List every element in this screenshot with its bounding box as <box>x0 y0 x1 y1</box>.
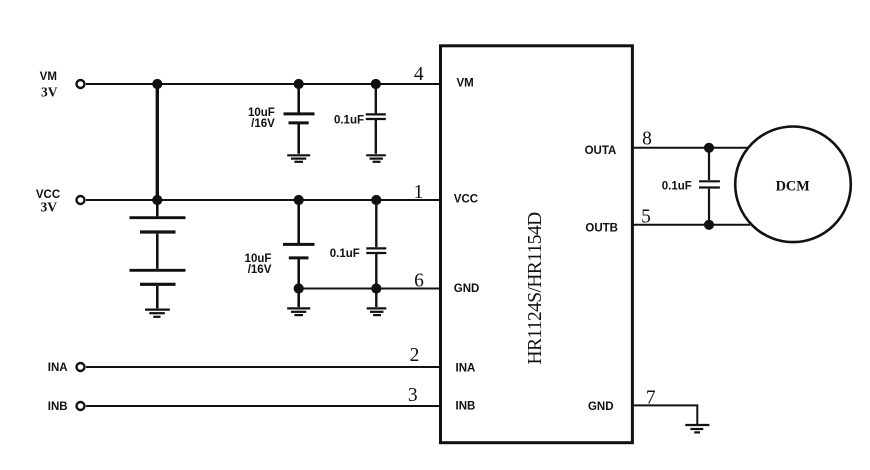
terminal VCC <box>77 196 85 204</box>
svg-text:0.1uF: 0.1uF <box>662 181 692 193</box>
capacitor C4 0.1uF (VCC) <box>366 200 386 307</box>
svg-text:0.1uF: 0.1uF <box>330 248 360 260</box>
svg-text:0.1uF: 0.1uF <box>334 114 364 126</box>
capacitor C3 10uF/16V (VCC) <box>283 200 315 307</box>
svg-text:/16V: /16V <box>251 118 275 130</box>
IC U1 body <box>441 46 633 443</box>
junction (709,224) <box>704 220 714 230</box>
junction (299,200) <box>294 195 304 205</box>
junction (157,200) <box>152 195 162 205</box>
label 10uF/16V (C1) <box>248 107 275 130</box>
terminal INB <box>77 402 85 410</box>
junction (376,84) <box>371 79 381 89</box>
svg-text:3V: 3V <box>41 199 58 214</box>
svg-text:1: 1 <box>414 182 424 203</box>
junction (157,84) <box>152 79 162 89</box>
motor DCM circle <box>735 127 851 243</box>
junction (299,288) <box>294 283 304 293</box>
svg-text:2: 2 <box>410 345 420 366</box>
ground (C3) <box>287 308 310 315</box>
wire VM-VCC tie <box>156 84 159 200</box>
label 10uF/16V (C3) <box>245 253 272 276</box>
svg-text:10uF: 10uF <box>248 107 275 119</box>
wire INB <box>86 405 442 407</box>
svg-text:INB: INB <box>48 401 68 413</box>
svg-text:INA: INA <box>456 362 476 374</box>
svg-text:VM: VM <box>40 71 57 83</box>
capacitor C5 0.1uF (motor) <box>699 148 720 225</box>
wire VM rail <box>86 83 442 85</box>
svg-text:5: 5 <box>641 207 651 228</box>
ground (C2) <box>366 155 386 162</box>
svg-text:6: 6 <box>414 271 424 292</box>
capacitor C2 0.1uF (VM) <box>366 84 386 154</box>
junction (376,200) <box>371 195 381 205</box>
terminal INA <box>77 363 85 371</box>
wire VCC rail <box>86 199 442 201</box>
svg-text:GND: GND <box>588 401 614 413</box>
svg-text:GND: GND <box>454 283 480 295</box>
svg-text:OUTA: OUTA <box>585 145 617 157</box>
svg-text:DCM: DCM <box>776 179 811 195</box>
junction (709,149) <box>704 143 714 153</box>
wire GND rail <box>299 288 442 290</box>
svg-text:VM: VM <box>457 77 474 89</box>
label VM 3V <box>40 71 58 100</box>
ground (C4) <box>367 308 387 315</box>
svg-text:10uF: 10uF <box>245 253 272 265</box>
battery BT1 <box>130 200 186 308</box>
svg-text:4: 4 <box>414 64 424 85</box>
junction (299,84) <box>294 79 304 89</box>
svg-text:7: 7 <box>646 388 656 409</box>
ground (C1) <box>287 155 310 162</box>
svg-text:8: 8 <box>642 129 652 150</box>
svg-text:OUTB: OUTB <box>585 222 618 234</box>
svg-text:/16V: /16V <box>248 264 272 276</box>
capacitor C1 10uF/16V (VM) <box>284 84 315 154</box>
wire INA <box>86 366 442 368</box>
svg-text:HR1124S/HR1154D: HR1124S/HR1154D <box>525 212 546 365</box>
wire OUTB <box>631 224 750 226</box>
label VCC 3V <box>36 189 60 215</box>
svg-text:3V: 3V <box>41 85 58 100</box>
wire OUTA <box>631 147 751 149</box>
svg-text:INB: INB <box>456 400 476 412</box>
terminal VM <box>77 80 85 88</box>
ground (battery) <box>145 310 170 317</box>
junction (376,288) <box>371 283 381 293</box>
wire GND pin7 <box>631 405 697 424</box>
ground (pin7) <box>685 425 709 432</box>
svg-text:3: 3 <box>408 385 418 406</box>
svg-text:INA: INA <box>48 362 68 374</box>
svg-text:VCC: VCC <box>454 193 478 205</box>
